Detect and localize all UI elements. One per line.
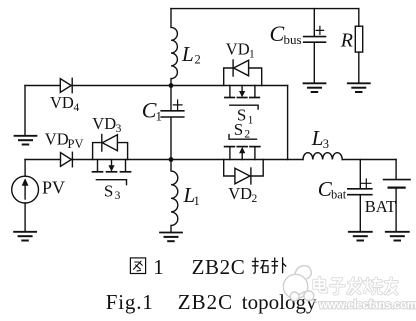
watermark glyph 电 (outer) (314, 278, 327, 292)
wire VD4 to ground (24, 86, 26, 136)
wire rail A (VD4 / L2 node / S1 source) (25, 85, 288, 87)
svg-text:Fig.1: Fig.1 (106, 290, 154, 314)
svg-text:VD: VD (226, 40, 250, 59)
battery BAT (395, 160, 397, 180)
watermark glyph 发 (inner) (348, 278, 362, 294)
wire rail B (PV / S3 / C1 bottom / S2 drain / L3) (25, 159, 303, 161)
svg-text:R: R (340, 30, 353, 52)
gate line S3 (overline bracket) (96, 180, 126, 185)
watermark glyph 友 (outer) (385, 278, 397, 294)
watermark glyph 发 (outer) (348, 278, 362, 294)
diode VD2 with loop wire (224, 160, 264, 177)
transistor S2 (MOSFET) (225, 146, 235, 148)
svg-text:1: 1 (153, 255, 164, 279)
plus sign Cbus (316, 26, 323, 34)
svg-text:VD: VD (45, 130, 69, 149)
transistor S1 (MOSFET) (229, 86, 231, 97)
ground (VD4) (15, 135, 37, 137)
svg-text:VD: VD (228, 184, 252, 203)
caption line 1: 图 1 ZB2C 拓扑 (130, 258, 145, 274)
glyph 拓 (252, 258, 268, 274)
diode VDPV (61, 153, 72, 167)
node A junction dot (169, 83, 174, 88)
wire top rail (171, 8, 359, 10)
svg-text:L: L (181, 42, 194, 66)
inductor L3 (303, 153, 342, 160)
inductor L2 (171, 9, 177, 86)
watermark glyph 友 (inner) (385, 278, 397, 294)
node B junction dot (169, 157, 174, 162)
current source PV (24, 160, 26, 177)
svg-text:2: 2 (195, 53, 201, 67)
diode VD3 with loop wire (93, 143, 128, 160)
svg-text:3: 3 (323, 137, 329, 151)
watermark glyph 烧 (outer) (365, 278, 382, 293)
svg-text:S: S (234, 120, 243, 139)
svg-text:VD: VD (50, 93, 74, 112)
svg-text:4: 4 (74, 102, 80, 114)
capacitor Cbus (313, 9, 315, 36)
wire bridge right vertical (287, 86, 289, 160)
ground (L1) (160, 232, 182, 234)
svg-text:3: 3 (116, 123, 122, 135)
inductor L1 (171, 160, 178, 233)
ground (PV) (14, 231, 36, 233)
ground (Cbus) (304, 82, 326, 84)
svg-text:www.elecfans.com: www.elecfans.com (318, 300, 416, 312)
svg-text:bat: bat (331, 188, 347, 202)
gate line S1 (overline bracket) (230, 105, 258, 109)
watermark text 电子发烧友 (314, 278, 397, 295)
plus sign C1 (173, 100, 182, 110)
svg-text:3: 3 (115, 190, 121, 202)
watermark glyph 子 (outer) (331, 279, 345, 294)
watermark logo swirl (283, 266, 317, 303)
svg-text:VD: VD (92, 114, 116, 133)
ground (Cbat) (349, 231, 372, 233)
svg-text:bus: bus (284, 32, 302, 47)
ground (BAT) (386, 231, 409, 233)
glyph 图 (130, 258, 145, 274)
svg-text:1: 1 (249, 49, 255, 61)
capacitor C1 (170, 86, 172, 111)
watermark glyph 电 (inner) (314, 278, 327, 292)
svg-text:1: 1 (248, 114, 254, 126)
transistor S3 (MOSFET) (97, 160, 99, 171)
svg-text:L: L (311, 126, 324, 150)
diode VD4 (60, 79, 71, 93)
svg-text:PV: PV (68, 137, 84, 151)
wire rail B right segment (342, 159, 396, 161)
watermark glyph 子 (inner) (331, 279, 345, 294)
svg-text:BAT: BAT (365, 197, 396, 216)
svg-text:1: 1 (156, 109, 163, 124)
svg-text:ZB2C: ZB2C (178, 290, 233, 314)
watermark glyph 烧 (inner) (365, 278, 382, 293)
plus sign Cbat (362, 179, 371, 188)
diode VD1 with loop wire (224, 68, 262, 86)
svg-text:2: 2 (252, 193, 258, 205)
glyph 扑 (271, 257, 286, 273)
resistor R (358, 9, 360, 27)
capacitor Cbat (359, 160, 361, 189)
svg-text:S: S (104, 181, 113, 200)
svg-text:ZB2C: ZB2C (192, 255, 246, 279)
svg-text:1: 1 (194, 194, 200, 208)
svg-text:C: C (270, 21, 285, 46)
svg-text:PV: PV (42, 178, 65, 198)
ground (R) (348, 82, 370, 84)
gate line S2 (underline bracket) (229, 135, 257, 140)
